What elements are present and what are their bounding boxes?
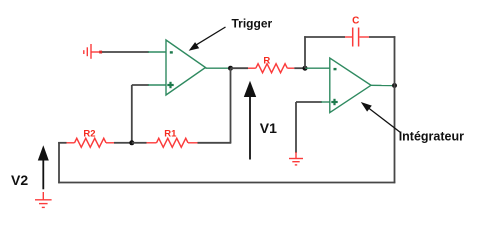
svg-text:C: C (352, 16, 359, 27)
wire: right vertical (output to bottom) (394, 36, 396, 183)
arrow V1 (244, 81, 256, 160)
ground GND1 (trigger minus input, rotated left) (84, 44, 100, 59)
wire: top feedback right segment (369, 36, 395, 38)
svg-text:R: R (263, 55, 270, 66)
svg-text:Trigger: Trigger (232, 16, 273, 30)
node: V1 junction (228, 66, 233, 71)
resistor R1 (132, 128, 232, 147)
svg-text:R2: R2 (83, 128, 95, 139)
wire: top feedback left segment (304, 36, 345, 38)
wire: capacitor branch up (304, 36, 306, 68)
wire: U1 plus input horizontal (132, 84, 149, 86)
pin stub U2 plus (green) (321, 101, 330, 103)
op-amp U1 (Trigger) (166, 40, 206, 95)
ground GND3 (V2) (35, 192, 52, 207)
wire: left vertical up to R2 (58, 142, 60, 183)
arrow annotation to U1 (189, 27, 226, 51)
pin stub U1 plus (green) (148, 84, 166, 86)
wire: vertical from U1 plus down to R2/R1 junction (131, 85, 133, 143)
terminal dot (red) (99, 51, 102, 54)
pin stub U1 output (green) (206, 67, 229, 69)
pin stub U1 minus (green) (148, 51, 166, 53)
node: output junction (392, 83, 397, 88)
ground GND2 (U2 plus input) (289, 152, 303, 165)
node: R / C / U2 minus junction (303, 66, 308, 71)
svg-text:Intégrateur: Intégrateur (399, 129, 464, 143)
wire: U2 plus input horizontal (296, 101, 322, 103)
svg-text:R1: R1 (164, 128, 177, 139)
arrow annotation to U2 (361, 102, 401, 133)
svg-text:V2: V2 (11, 172, 28, 188)
wire: ground to U1 minus input (102, 51, 149, 53)
op-amp U2 (Integrateur) (330, 58, 371, 113)
resistor R2 (58, 128, 130, 147)
wire: bottom horizontal (58, 182, 395, 184)
pin stub U2 output (green) (371, 84, 392, 86)
arrow V2 (38, 145, 49, 189)
svg-text:V1: V1 (260, 120, 277, 136)
node: R2/R1 junction (129, 140, 134, 145)
capacitor C (345, 16, 369, 47)
resistor R (231, 55, 306, 72)
wire: junction down to R1 (230, 68, 232, 143)
pin stub U2 minus (green) (305, 67, 330, 69)
wire: down to ground GND2 (295, 102, 297, 153)
